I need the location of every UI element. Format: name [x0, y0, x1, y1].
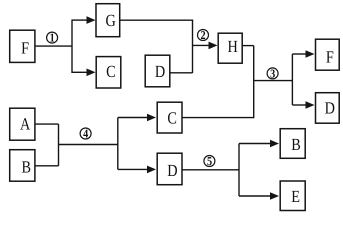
wire arrow into C2: [118, 114, 156, 122]
wire arrow into E: [239, 192, 279, 200]
label circled 2: [198, 28, 209, 42]
svg-text:4: 4: [83, 127, 88, 141]
svg-text:G: G: [106, 11, 116, 30]
wire branch 3 horizontal: [254, 80, 293, 82]
label circled 1: [47, 31, 58, 45]
node A: [10, 108, 35, 140]
wire arrow into D2: [292, 101, 314, 109]
wire arrow into D3: [118, 166, 156, 174]
svg-text:1: 1: [50, 31, 55, 45]
svg-text:2: 2: [201, 28, 206, 42]
wire split vertical to B2 E: [238, 144, 240, 197]
node F2: [316, 39, 340, 70]
svg-text:F: F: [326, 47, 334, 66]
label circled 3: [267, 66, 278, 80]
wire B1 output: [35, 165, 59, 167]
wire arrow into F2: [292, 50, 314, 58]
node C1: [96, 57, 121, 88]
node D2: [316, 93, 340, 124]
svg-text:C: C: [106, 62, 116, 81]
label circled 5: [204, 154, 215, 168]
svg-text:D: D: [325, 99, 335, 118]
svg-text:A: A: [20, 115, 31, 134]
wire A output: [35, 123, 59, 125]
wire middle horizontal 4: [59, 144, 118, 146]
wire C2 output: [182, 117, 253, 119]
node D3: [157, 153, 182, 185]
wire merge vertical after A B: [58, 124, 60, 166]
svg-text:C: C: [167, 109, 177, 128]
node H: [218, 33, 242, 63]
node C2: [157, 102, 182, 133]
wire D3 output: [182, 169, 239, 171]
node B2: [280, 129, 305, 159]
svg-text:H: H: [228, 37, 238, 56]
svg-text:E: E: [291, 187, 300, 206]
node B1: [10, 150, 35, 182]
svg-text:B: B: [291, 135, 301, 154]
wire F1 output: [35, 45, 72, 47]
label circled 4: [80, 127, 91, 141]
svg-text:D: D: [155, 62, 165, 81]
wire split vertical after F1: [71, 20, 73, 74]
wire G output: [120, 19, 194, 21]
svg-text:D: D: [167, 161, 177, 180]
wire arrow into G: [72, 16, 96, 24]
node D1: [145, 55, 170, 87]
svg-text:B: B: [22, 158, 32, 177]
wire arrow into C1: [72, 69, 96, 77]
svg-text:3: 3: [270, 66, 275, 80]
svg-text:5: 5: [207, 154, 212, 168]
node F1: [10, 30, 35, 62]
wire merge vertical before H: [192, 20, 194, 73]
wire merge vertical after H: [253, 46, 255, 119]
node E: [280, 181, 305, 211]
wire split vertical to F2 D2: [291, 54, 293, 105]
wire split vertical to C2 D3: [117, 118, 119, 170]
node G: [96, 4, 120, 37]
svg-text:F: F: [21, 39, 29, 58]
wire H output: [242, 45, 254, 47]
wire arrow into H: [193, 42, 218, 50]
wire D1 output: [170, 72, 193, 74]
wire arrow into B2: [239, 140, 279, 148]
